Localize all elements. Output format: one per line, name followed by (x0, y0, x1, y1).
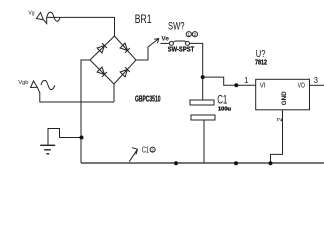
wire GND pin 2 (271, 110, 283, 164)
svg-text:100u: 100u (218, 107, 231, 113)
svg-text:2: 2 (277, 117, 284, 121)
svg-text:VI: VI (260, 83, 266, 90)
svg-text:3: 3 (314, 75, 318, 85)
wire left vertex to bottom rail (81, 60, 90, 163)
diode D2 top-right (120, 43, 130, 53)
svg-text:Ve: Ve (161, 36, 169, 43)
diode D1 top-left (97, 43, 107, 53)
svg-text:C1: C1 (142, 145, 150, 154)
svg-text:U?: U? (256, 49, 266, 60)
junction dot rail 1 (174, 161, 178, 165)
junction dot rail 3 (269, 161, 273, 165)
svg-text:VO: VO (298, 83, 306, 90)
pin numbers 1 2 circled (186, 32, 197, 38)
wire top rail (47, 17, 115, 36)
svg-text:Vgb: Vgb (18, 80, 28, 86)
junction dot node Ve2 (201, 75, 205, 79)
diode D3 bottom-left (97, 67, 107, 77)
svg-text:Vg: Vg (28, 10, 34, 16)
wire Ve to switch (161, 42, 170, 44)
wire VO pin 3 (310, 84, 324, 86)
svg-text:SW?: SW? (168, 20, 185, 32)
junction dot VI wire (234, 83, 238, 87)
ground (40, 145, 55, 154)
svg-text:BR1: BR1 (135, 12, 152, 26)
svg-text:C1: C1 (217, 92, 227, 106)
source Vg symbol (37, 12, 61, 24)
label C1 pin2 (142, 145, 155, 154)
bridge BR1 diamond (90, 36, 136, 84)
wire switch to node (190, 43, 203, 100)
junction dot rail 2 (234, 161, 238, 165)
source Vgb symbol (31, 80, 55, 89)
wire right vertex to Ve (136, 39, 158, 60)
svg-text:7812: 7812 (255, 60, 267, 67)
capacitor C1 (190, 100, 215, 163)
diode D4 bottom-right (120, 67, 130, 77)
junction dot ground tap (80, 136, 84, 140)
wire ground tap (48, 129, 82, 146)
net arrow Ve (154, 39, 159, 44)
regulator U1 box (256, 79, 310, 110)
svg-text:SW-SPST: SW-SPST (168, 45, 195, 54)
svg-text:GND: GND (281, 91, 288, 105)
wire bottom vertex to Vgb wire (113, 84, 115, 102)
wire node to VI (203, 77, 256, 85)
bottom rail wire (81, 162, 324, 164)
wire from Vgb (37, 87, 114, 102)
switch SW1 (169, 41, 189, 45)
svg-text:GBPC3510: GBPC3510 (135, 94, 161, 104)
net arrow C1-2 (129, 148, 137, 162)
svg-text:1: 1 (244, 75, 248, 85)
